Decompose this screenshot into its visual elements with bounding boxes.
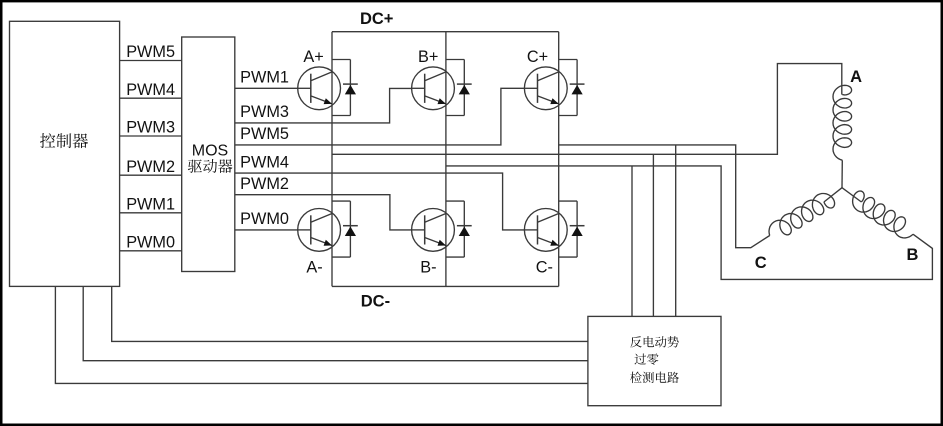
svg-text:PWM0: PWM0 (240, 210, 289, 228)
svg-text:B-: B- (420, 259, 436, 277)
svg-text:PWM4: PWM4 (126, 81, 175, 99)
svg-text:C+: C+ (527, 48, 548, 66)
svg-text:C: C (755, 254, 767, 272)
svg-text:DC-: DC- (361, 292, 390, 310)
svg-text:A: A (850, 68, 862, 86)
svg-text:PWM1: PWM1 (240, 69, 289, 87)
svg-text:PWM2: PWM2 (240, 175, 289, 193)
svg-text:PWM0: PWM0 (126, 234, 175, 252)
svg-text:PWM1: PWM1 (126, 196, 175, 214)
svg-text:PWM4: PWM4 (240, 153, 289, 171)
svg-text:PWM2: PWM2 (126, 158, 175, 176)
svg-text:PWM3: PWM3 (240, 103, 289, 121)
svg-text:PWM5: PWM5 (126, 43, 175, 61)
svg-text:PWM5: PWM5 (240, 125, 289, 143)
svg-text:MOS: MOS (192, 142, 228, 159)
svg-text:B: B (906, 246, 918, 264)
svg-text:C-: C- (536, 259, 553, 277)
svg-text:DC+: DC+ (360, 10, 393, 28)
svg-text:B+: B+ (418, 48, 438, 66)
svg-text:A-: A- (306, 259, 322, 277)
svg-text:A+: A+ (303, 48, 323, 66)
svg-text:PWM3: PWM3 (126, 119, 175, 137)
